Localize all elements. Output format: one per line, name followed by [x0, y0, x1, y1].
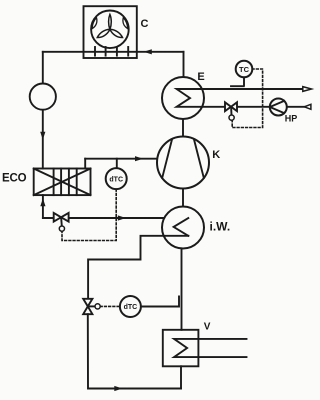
fan shroud arc left [92, 18, 97, 29]
i.W. coil zigzag [174, 218, 189, 236]
economizer ECO [34, 169, 91, 196]
ECO plate line 1 [53, 169, 55, 196]
coil tick 4 [127, 47, 129, 56]
wire: suction i.W. to V [181, 248, 183, 329]
svg-text:dTC: dTC [124, 304, 138, 311]
wire: left drop C to ECO [42, 52, 44, 169]
fan blade lower-right [110, 29, 123, 37]
dashed control line to dTC2 [100, 305, 120, 307]
dashed control line TC to valve V2 [232, 69, 262, 128]
expansion valve V3 (vertical) [83, 299, 92, 307]
svg-text:K: K [212, 149, 220, 161]
ECO diagonal 1 [34, 169, 91, 196]
wire: valve V3 down to bottom line [88, 314, 181, 388]
valve V1 actuator stem [60, 220, 63, 227]
receiver circle [30, 84, 56, 110]
svg-text:i.W.: i.W. [210, 219, 231, 233]
ECO plate line 4 [76, 169, 78, 196]
evaporator/condenser circle E [162, 77, 204, 119]
controller dTC2 [120, 296, 141, 317]
wire: E to K [182, 119, 184, 137]
svg-text:V: V [204, 322, 211, 333]
svg-text:ECO: ECO [2, 172, 27, 184]
svg-text:HP: HP [285, 114, 298, 124]
arrow up into ECO [40, 198, 45, 206]
wire: i.W. out stepping down to expansion valve [88, 236, 188, 299]
wire: K to i.W. [182, 189, 184, 207]
condenser box C [84, 6, 137, 58]
fan shroud arc right [123, 18, 128, 29]
evaporator box V [163, 330, 199, 367]
fan blade up [109, 14, 112, 29]
internal heat exchanger i.W. [162, 207, 204, 249]
controller dTC1 [106, 168, 127, 189]
ECO diagonal 2 [34, 169, 91, 196]
compressor K [157, 137, 209, 189]
arrow into C [144, 49, 152, 54]
TC sensor foot [231, 77, 245, 86]
svg-text:TC: TC [239, 65, 250, 74]
valve V2 actuator circle [229, 115, 234, 120]
valve V2 (water line) [225, 102, 231, 111]
open arrow water in [304, 104, 311, 109]
arrow on bottom line [114, 386, 122, 391]
svg-text:C: C [141, 18, 149, 30]
compressor chord right [194, 139, 204, 178]
open arrow hot water out [303, 87, 312, 92]
dTC2 sensor capillary to suction pipe [141, 296, 179, 306]
wire: riser C to E [183, 52, 185, 78]
pump HP [270, 99, 287, 116]
expansion valve V1 (ECO injection) [54, 213, 61, 222]
svg-text:E: E [197, 71, 204, 83]
pump HP triangle [270, 101, 284, 113]
dashed control line dTC1 to valve V1 [62, 189, 116, 240]
valve V1 actuator circle [59, 226, 64, 231]
wire: condenser top pipe [43, 51, 184, 53]
arrow on liquid line [118, 215, 126, 220]
V coil zigzag with water lines [174, 339, 246, 357]
arrow down to ECO [40, 132, 45, 140]
wire: ECO bottom-left riser [42, 195, 44, 218]
arrow into K [135, 156, 143, 161]
E coil zigzag [177, 89, 305, 107]
controller TC [236, 61, 253, 78]
coil tick 3 [116, 47, 118, 56]
coil tick 2 [105, 47, 107, 56]
compressor chord left [162, 139, 172, 178]
wire: liquid line to i.W. with top bar of i.W. coil [43, 217, 188, 219]
ECO plate line 2 [60, 169, 62, 196]
svg-text:dTC: dTC [109, 176, 123, 183]
dTC sensor stem (ECO) [116, 159, 118, 169]
fan blade lower-left [97, 29, 110, 37]
wire: bottom line up into V [180, 366, 182, 388]
valve V2 actuator stem [230, 109, 232, 115]
ECO plate line 3 [68, 169, 70, 196]
valve V3 stem [90, 305, 96, 307]
wire: vapour injection line to K [85, 158, 157, 160]
coil tick 1 [94, 47, 96, 56]
wire: ECO vapour riser [84, 159, 86, 169]
fan circle [91, 11, 129, 49]
valve V3 actuator circle [95, 304, 100, 309]
